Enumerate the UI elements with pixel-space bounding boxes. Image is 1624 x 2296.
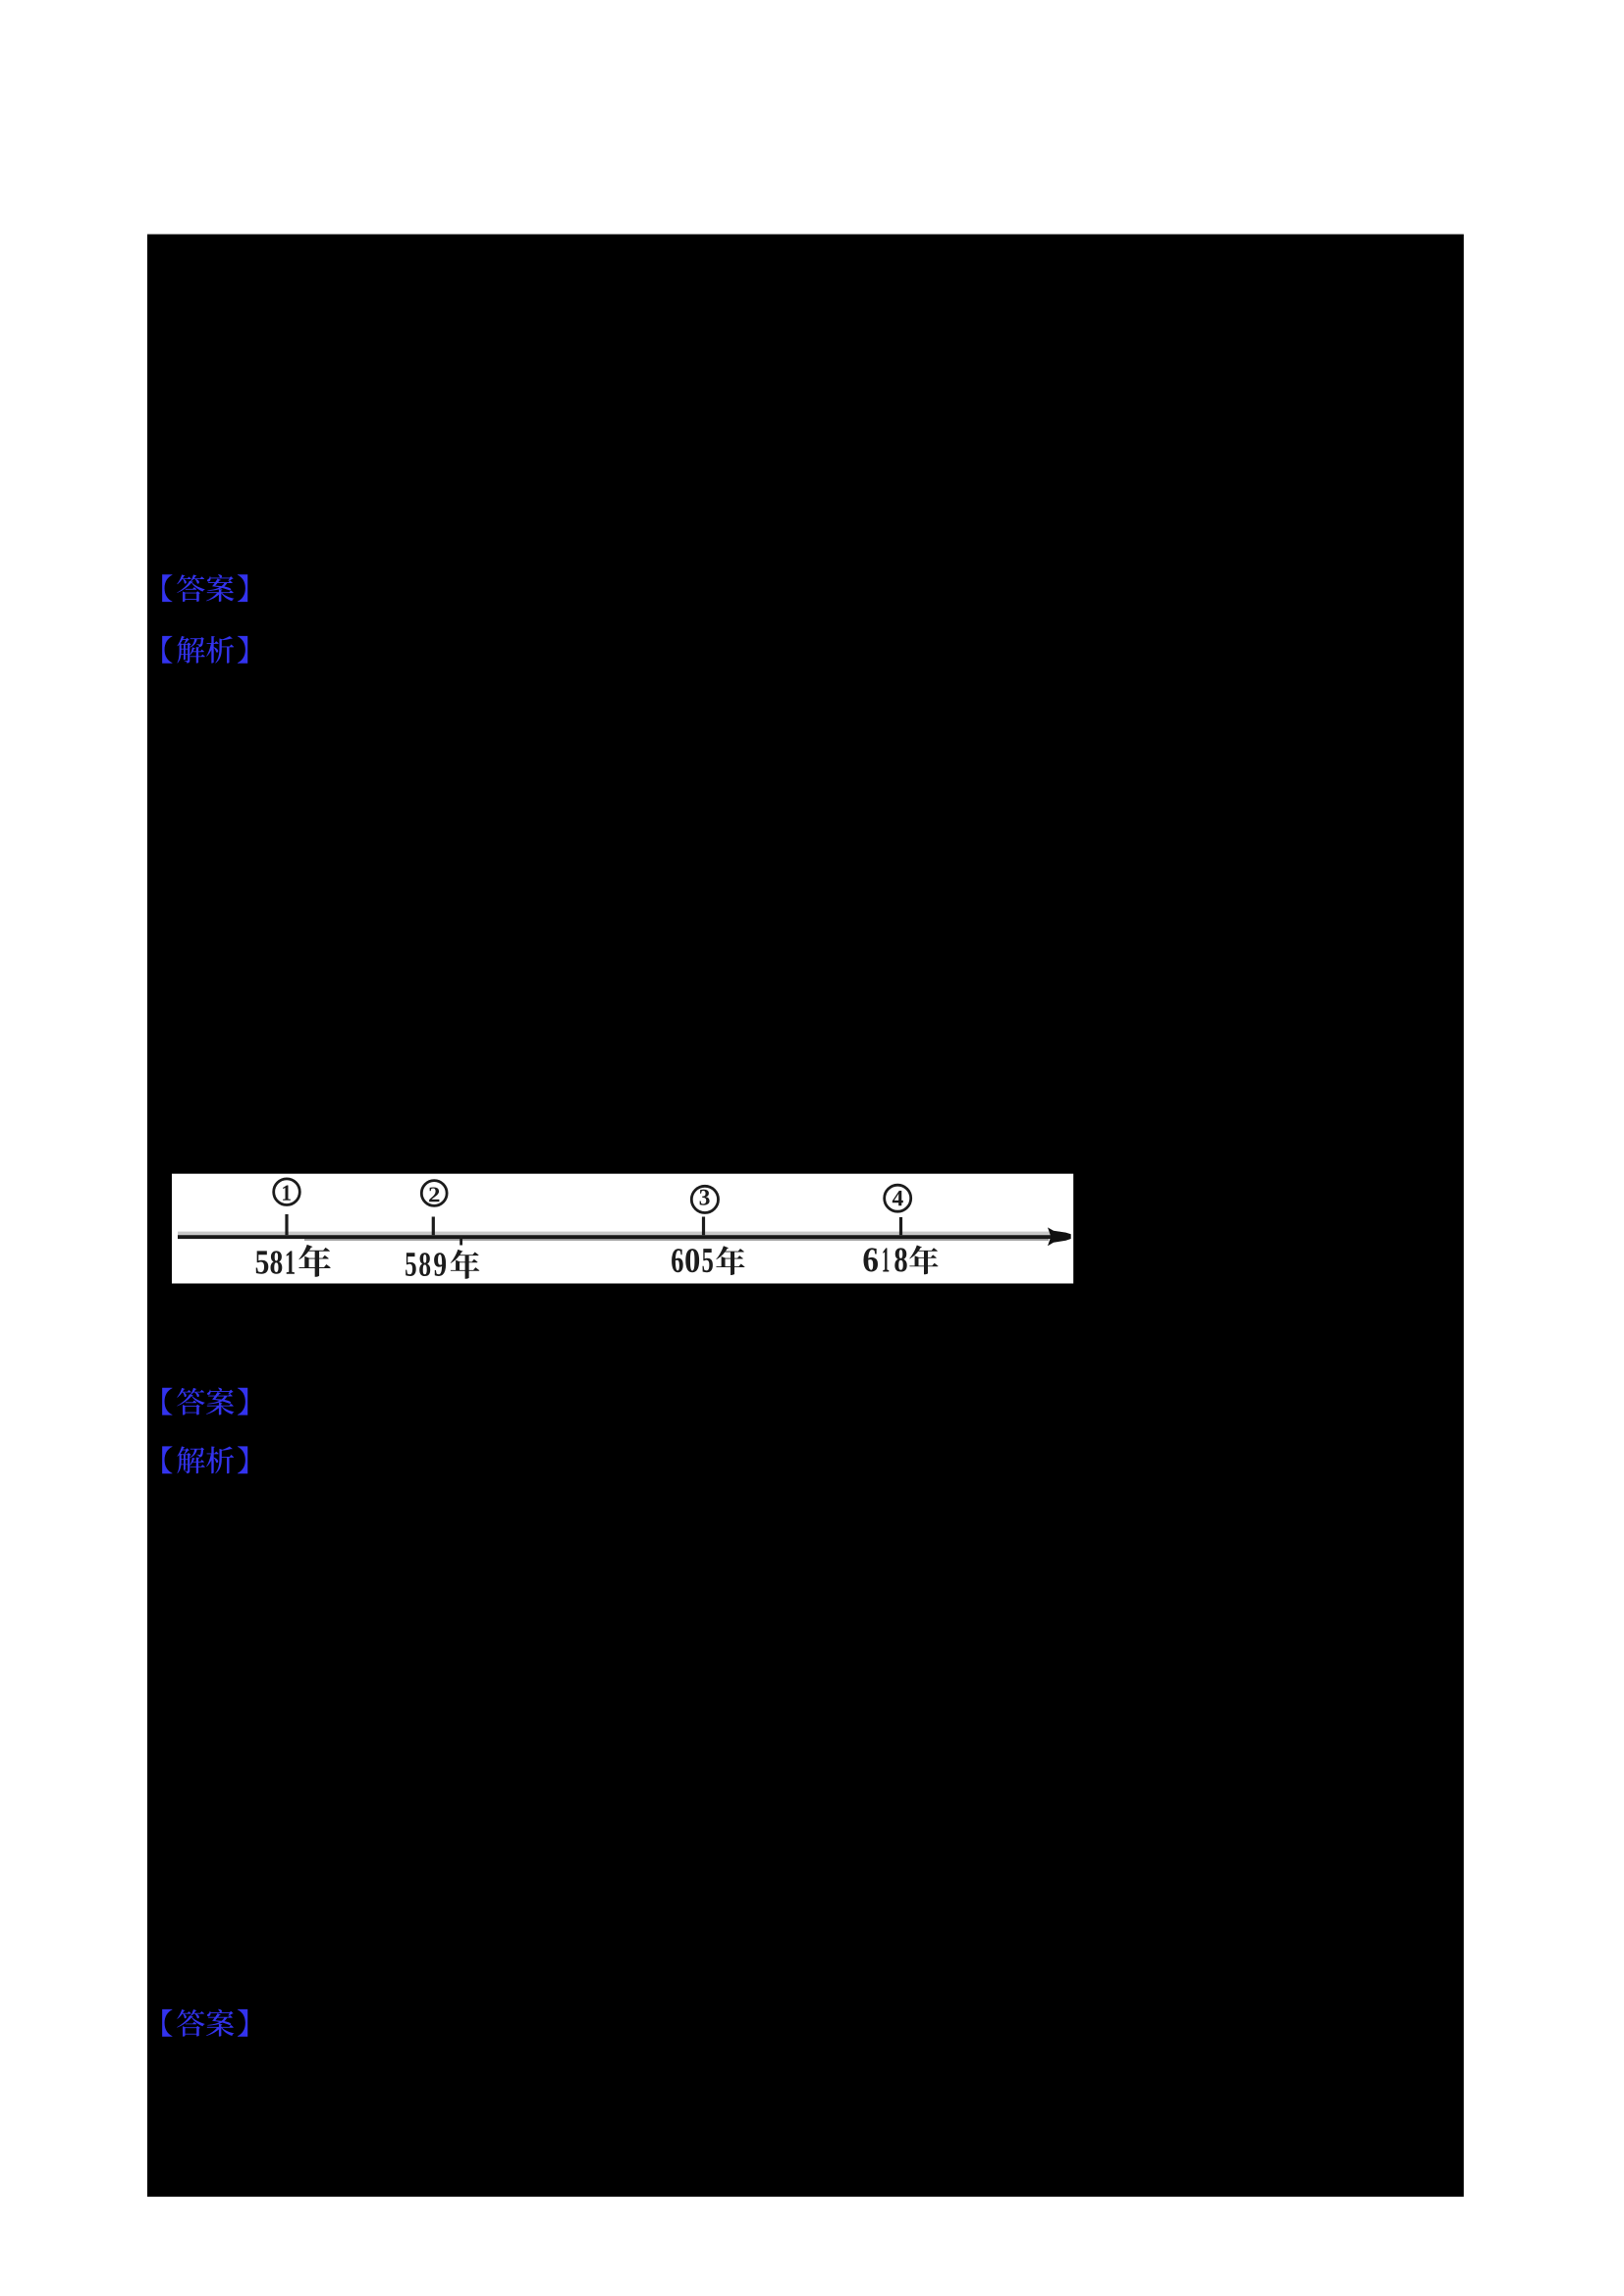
circled number 2 bbox=[421, 1181, 447, 1206]
year label 589年 bbox=[406, 1253, 416, 1276]
label 2 analysis bbox=[162, 636, 247, 664]
tick under circle 3 bbox=[702, 1217, 705, 1236]
timeline axis bbox=[178, 1232, 1060, 1236]
tick under circle 4 bbox=[899, 1217, 902, 1235]
circled number 4 bbox=[885, 1185, 911, 1211]
label 3 answer bbox=[162, 1388, 247, 1415]
label 1 answer bbox=[162, 574, 247, 602]
black content panel bbox=[147, 235, 1464, 2197]
label 5 answer bbox=[162, 2009, 247, 2037]
tick under circle 1 bbox=[285, 1214, 288, 1235]
circled number 3 bbox=[691, 1186, 718, 1212]
tick under circle 2 bbox=[432, 1217, 435, 1236]
small tick below axis near 589 bbox=[460, 1236, 462, 1246]
label 4 analysis bbox=[162, 1446, 247, 1473]
year label 581年 bbox=[256, 1251, 269, 1273]
timeline figure white box bbox=[172, 1174, 1073, 1284]
circled number 1 bbox=[274, 1179, 300, 1205]
axis arrowhead bbox=[1048, 1227, 1071, 1246]
year label 618年 bbox=[863, 1248, 877, 1271]
year label 605年 bbox=[672, 1249, 683, 1272]
